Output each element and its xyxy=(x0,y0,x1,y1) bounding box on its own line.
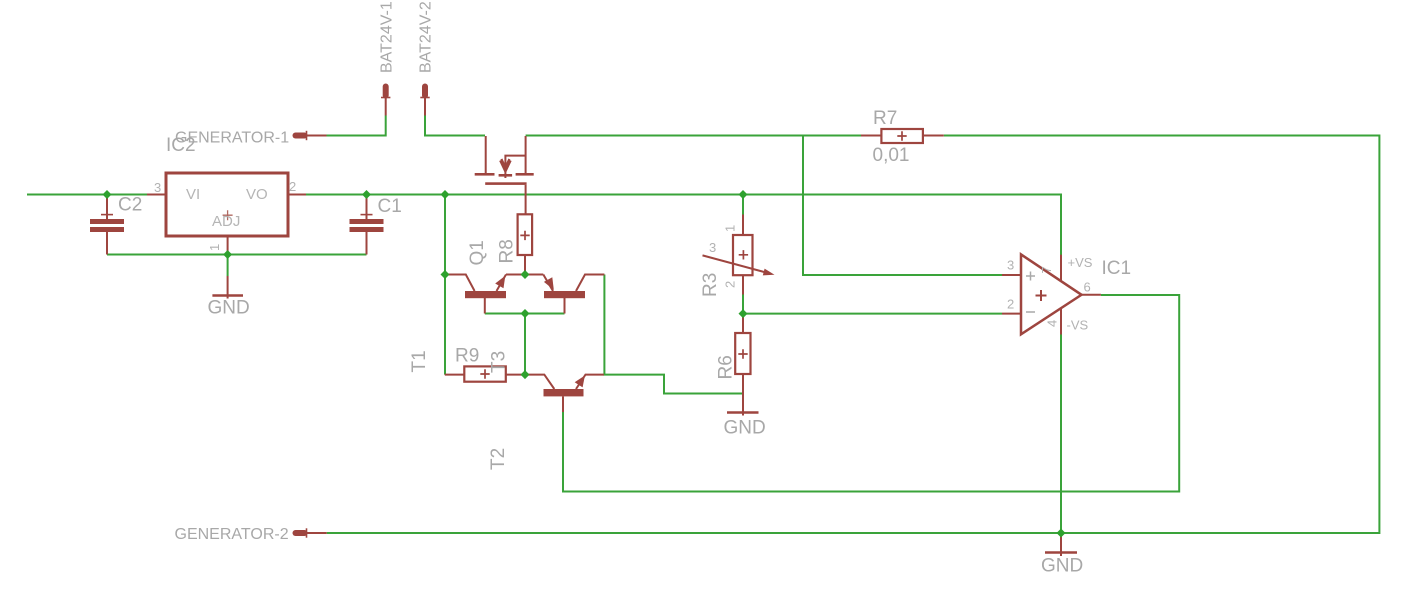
svg-text:R9: R9 xyxy=(455,346,479,367)
svg-text:1: 1 xyxy=(207,244,222,251)
pin header GENERATOR-1 xyxy=(296,133,305,139)
R6 pin top xyxy=(742,314,744,333)
junction node T1 collector xyxy=(441,270,450,279)
IC1 pin 3 (+) xyxy=(1002,274,1021,276)
svg-text:3: 3 xyxy=(1007,258,1014,273)
svg-text:BAT24V-2: BAT24V-2 xyxy=(418,1,435,73)
svg-text:6: 6 xyxy=(1084,280,1091,295)
wire T3 emitter down to T2 emitter and R6 bottom xyxy=(604,275,742,394)
junction node R8 bottom xyxy=(521,270,530,279)
svg-text:3: 3 xyxy=(154,180,161,195)
transistor T1 emitter arrow xyxy=(495,276,505,289)
svg-text:1: 1 xyxy=(723,225,738,232)
svg-text:R7: R7 xyxy=(873,108,897,129)
svg-text:T1: T1 xyxy=(409,350,430,372)
capacitor C2 xyxy=(106,195,108,220)
wire main rail right segment to op-amp +VS xyxy=(306,195,1061,256)
resistor R9 xyxy=(464,366,506,381)
junction node base bus xyxy=(521,309,530,318)
IC1 pin 4 -VS xyxy=(1060,309,1062,335)
wire base node down to R9 node xyxy=(524,314,526,375)
resistor R8 xyxy=(518,214,533,255)
R9 pin right xyxy=(506,374,525,376)
svg-text:R3: R3 xyxy=(700,273,721,297)
transistor T3 emitter diagonal with arrow xyxy=(543,275,553,292)
wire R3/R6 node to op-amp -input xyxy=(743,313,1002,315)
ground GND under R6 xyxy=(727,411,759,413)
svg-text:R8: R8 xyxy=(497,239,518,263)
junction node R3/R6 xyxy=(739,309,748,318)
pin header BAT24V-1 xyxy=(383,87,389,96)
transistor T2 collector lead down xyxy=(562,396,564,412)
transistor T1 (left of pair) collector lead xyxy=(445,275,475,292)
ground GND bottom right xyxy=(1060,533,1062,556)
transistor T3 collector diagonal xyxy=(576,275,604,292)
junction node R3/rail xyxy=(739,190,748,199)
R3 pin 2 xyxy=(742,275,744,294)
wire top net MOSFET to R7 xyxy=(526,135,861,137)
MOSFET Q1 bulk connection xyxy=(505,156,525,178)
IC1 -input marker xyxy=(1026,311,1035,313)
wire capacitor bottom bus xyxy=(107,254,367,256)
svg-text:GENERATOR-1: GENERATOR-1 xyxy=(175,130,289,147)
svg-text:2: 2 xyxy=(723,281,738,288)
svg-text:ADJ: ADJ xyxy=(212,213,240,230)
IC2 pin 3 (VI) xyxy=(147,194,166,196)
svg-text:7: 7 xyxy=(1039,266,1054,273)
svg-text:2: 2 xyxy=(289,179,296,194)
transistor T1 base bar xyxy=(465,291,506,298)
junction node C1/rail xyxy=(362,190,371,199)
svg-text:T3: T3 xyxy=(489,351,510,373)
R3 pin 1 xyxy=(742,215,744,236)
wire op-amp -VS down to bottom rail xyxy=(1060,335,1062,534)
capacitor C1 xyxy=(366,195,368,220)
transistor T3 (right of pair) base bar xyxy=(544,291,585,298)
wire between T1 and T3 tops xyxy=(506,274,543,276)
IC1 pin 7 +VS xyxy=(1060,255,1062,282)
junction node -VS/bottom rail xyxy=(1057,529,1066,538)
svg-text:GENERATOR-2: GENERATOR-2 xyxy=(175,526,289,543)
svg-text:GND: GND xyxy=(208,298,250,319)
svg-text:GND: GND xyxy=(1041,556,1083,577)
IC2 pin 2 (VO) xyxy=(288,194,306,196)
R7 pin right xyxy=(923,135,944,137)
IC2 pin 1 (ADJ) xyxy=(227,236,229,255)
R3 wiper arrow xyxy=(703,255,767,272)
R6 pin bottom xyxy=(742,374,744,416)
wire R7 branch down to op-amp +input xyxy=(803,136,1002,276)
MOSFET Q1 drain lead left xyxy=(485,136,487,173)
wire rail down to R9 pin1 xyxy=(444,195,446,375)
junction node Q1 branch/rail xyxy=(441,190,450,199)
resistor R6 xyxy=(735,333,750,374)
transistor T1 emitter diagonal xyxy=(497,275,507,292)
svg-text:3: 3 xyxy=(709,240,716,255)
svg-text:VI: VI xyxy=(186,186,200,203)
transistor T3 base lead xyxy=(564,298,566,314)
svg-text:Q1: Q1 xyxy=(467,240,488,265)
svg-text:-VS: -VS xyxy=(1067,318,1089,333)
IC2 voltage regulator box xyxy=(166,173,288,236)
MOSFET Q1 bulk arrow xyxy=(500,159,510,172)
svg-text:+VS: +VS xyxy=(1068,255,1093,270)
wire R7 to right edge down to bottom rail and GENERATOR-2 xyxy=(327,136,1380,534)
ground GND under IC2 xyxy=(227,255,229,277)
op-amp IC1 triangle xyxy=(1021,254,1082,334)
junction node R9/T2 base xyxy=(521,370,530,379)
junction node C2/rail xyxy=(103,190,112,199)
svg-text:C1: C1 xyxy=(378,196,402,217)
wire rail to R3 pin1 xyxy=(742,195,744,215)
IC1 +input marker xyxy=(1026,272,1035,281)
IC1 pin 2 (-) xyxy=(1002,313,1021,315)
wire BAT24V-2 to MOSFET drain xyxy=(425,116,485,136)
MOSFET Q1 left pad xyxy=(475,173,495,176)
IC1 pin 6 output xyxy=(1082,294,1101,296)
MOSFET Q1 gate lead down to R8 xyxy=(525,185,527,214)
wire main rail left segment xyxy=(27,194,147,196)
R9 pin left xyxy=(445,374,465,376)
svg-text:4: 4 xyxy=(1045,320,1060,327)
transistor T2 emitter diagonal with arrow xyxy=(576,375,604,389)
transistor T2 base bar xyxy=(544,389,584,396)
wire T2 collector down and along bottom to op-amp output xyxy=(563,295,1179,492)
wire GENERATOR-1 to BAT24V-1 xyxy=(326,116,386,136)
wire R3 pin2 to node xyxy=(742,295,744,314)
MOSFET Q1 middle pad xyxy=(499,174,512,177)
resistor R7 xyxy=(881,129,923,143)
svg-text:2: 2 xyxy=(1007,297,1014,312)
IC1 internal + symbol xyxy=(1036,290,1047,301)
wire T1/T3 base bus xyxy=(485,313,565,315)
svg-text:GND: GND xyxy=(724,418,766,439)
transistor T2 base lead xyxy=(525,375,554,389)
svg-text:BAT24V-1: BAT24V-1 xyxy=(379,1,396,73)
svg-text:0,01: 0,01 xyxy=(873,145,910,166)
IC2 ADJ origin cross xyxy=(223,210,233,220)
pin header GENERATOR-2 xyxy=(296,530,305,536)
svg-text:VO: VO xyxy=(246,186,268,203)
svg-text:IC1: IC1 xyxy=(1102,258,1132,279)
R7 pin left xyxy=(861,135,881,137)
svg-text:C2: C2 xyxy=(118,195,142,216)
MOSFET Q1 source lead right xyxy=(525,136,527,173)
MOSFET Q1 right pad xyxy=(516,173,534,176)
junction node ADJ/bottom bus xyxy=(223,250,232,259)
svg-text:R6: R6 xyxy=(716,355,737,379)
pin header BAT24V-2 xyxy=(422,87,428,96)
svg-text:T2: T2 xyxy=(488,448,509,470)
MOSFET Q1 gate plate xyxy=(485,182,526,185)
transistor T1 base lead xyxy=(484,298,486,314)
potentiometer R3 box xyxy=(733,235,753,275)
